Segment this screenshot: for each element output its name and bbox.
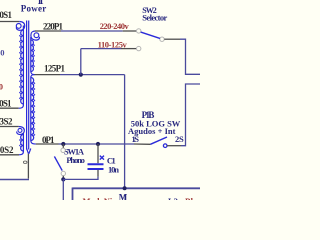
switch SW2 contact 2 circle xyxy=(137,46,141,50)
wire 0S1 second pin xyxy=(0,107,19,109)
svg-text:Mod. Niv: Mod. Niv xyxy=(83,196,118,200)
pin SW1A bottom stub xyxy=(62,176,64,180)
junction dot SW1A tap xyxy=(61,142,65,146)
junction dot SW1A bottom xyxy=(61,177,65,181)
switch P1B contact circle 2S xyxy=(163,144,167,148)
winding W2 cusp ticks xyxy=(20,139,22,148)
pin 220P1 xyxy=(35,30,61,32)
svg-text:125P1: 125P1 xyxy=(44,64,66,74)
winding W2 top curl xyxy=(17,127,25,135)
winding W1 scallops xyxy=(21,30,24,104)
switch SW2 common circle xyxy=(160,37,164,41)
wire 125P1 vertical down to M1 xyxy=(124,75,126,189)
wire SW2 common to right edge xyxy=(180,39,200,74)
svg-text:20: 20 xyxy=(0,81,3,91)
winding W1 bottom curve xyxy=(19,104,24,108)
pin P1B 1S stub xyxy=(134,143,150,145)
svg-text:0P1: 0P1 xyxy=(42,135,55,145)
wire 0P1 horizontal xyxy=(59,143,135,145)
winding W1 cusp ticks xyxy=(20,34,22,100)
winding R1 scallops xyxy=(31,40,34,72)
capacitor C1 plates xyxy=(88,164,104,169)
no-ERC marker X xyxy=(100,156,104,160)
module M1 box top edge xyxy=(73,187,201,189)
wire 110-125v vertical riser xyxy=(80,49,82,75)
winding W1 top curl xyxy=(16,22,24,31)
winding R1 polarity dot xyxy=(34,33,39,38)
transformer T1 core bottom merge xyxy=(27,149,31,154)
svg-text:L2: L2 xyxy=(168,196,178,200)
capacitor C1 bottom pin xyxy=(97,170,99,177)
wire 0S2 pin xyxy=(0,154,19,156)
wire SW1A bottom to image bottom xyxy=(62,179,64,200)
transformer T1 core lines xyxy=(27,21,29,150)
winding W2 line xyxy=(22,133,24,151)
junction dot C1 tap xyxy=(96,142,100,146)
capacitor C1 top pin xyxy=(97,144,99,163)
module M1 box left edge xyxy=(72,188,74,201)
svg-text:Power: Power xyxy=(21,4,47,14)
winding W1 polarity dot xyxy=(16,24,21,29)
pin 125P1 xyxy=(35,74,61,76)
svg-text:1S: 1S xyxy=(132,134,140,144)
wire from pin 0 to left edge xyxy=(0,179,29,181)
svg-text:63S2: 63S2 xyxy=(0,117,13,127)
winding W1 line xyxy=(22,26,24,105)
switch SW1A top contact circle xyxy=(61,148,65,152)
junction dot 125P1/110-125v xyxy=(79,73,83,77)
pin 0P1 xyxy=(36,143,59,145)
wire 3S2 pin xyxy=(0,126,19,128)
svg-text:110-125v: 110-125v xyxy=(98,39,128,49)
svg-text:220P1: 220P1 xyxy=(43,21,64,31)
winding W2 scallops xyxy=(21,135,24,152)
svg-text:40S1: 40S1 xyxy=(0,98,12,108)
switch SW2 lever xyxy=(141,32,160,38)
switch P1B lever xyxy=(150,137,167,144)
wire right edge to P1B 2S xyxy=(181,84,200,146)
switch SW1A bottom contact circle xyxy=(61,171,65,175)
pin SW2 contact 2 stub xyxy=(121,48,136,50)
svg-text:Phono: Phono xyxy=(66,155,85,165)
winding R1 line xyxy=(30,37,32,72)
winding R1 top curl xyxy=(31,31,40,40)
winding R2 bottom curve xyxy=(31,141,36,145)
svg-text:40S1: 40S1 xyxy=(0,10,13,20)
junction dot on M1 top xyxy=(123,186,127,190)
winding R2 cusp ticks xyxy=(33,82,35,137)
svg-text:M1: M1 xyxy=(119,193,128,200)
pin number 0 (rotated) xyxy=(23,161,27,163)
wire 220P1 to SW2 xyxy=(61,30,123,32)
pin SW2 contact 1 stub xyxy=(123,30,137,32)
svg-text:30: 30 xyxy=(0,47,5,57)
svg-text:220-240v: 220-240v xyxy=(100,21,130,31)
switch SW1A lever xyxy=(54,156,62,170)
winding R2 top curve xyxy=(31,75,35,78)
pin SW2 common stub xyxy=(164,38,180,40)
winding R1 cusp ticks xyxy=(33,44,35,68)
svg-text:60S2: 60S2 xyxy=(0,145,14,155)
wire 110-125v horizontal xyxy=(81,48,121,50)
winding R2 line xyxy=(30,78,32,141)
winding W2 polarity dot xyxy=(18,128,22,132)
svg-text:10n: 10n xyxy=(108,164,119,174)
switch SW2 contact 1 circle xyxy=(137,29,141,33)
winding W2 bottom curve xyxy=(19,151,23,155)
svg-text:Selector: Selector xyxy=(142,13,167,23)
svg-text:Blu: Blu xyxy=(185,196,198,200)
wire 0S1 top-left pin xyxy=(0,21,19,23)
wire 125P1 horizontal xyxy=(60,74,125,76)
winding R2 scallops xyxy=(31,78,34,141)
pin 0 transformer bottom xyxy=(27,154,29,179)
svg-text:2S: 2S xyxy=(175,134,184,144)
wire SW1A bottom to C1 bottom xyxy=(63,177,98,180)
pin SW1A top stub xyxy=(62,144,64,148)
pin P1B 2S stub xyxy=(167,145,181,147)
winding R1 bottom curve xyxy=(31,72,35,75)
